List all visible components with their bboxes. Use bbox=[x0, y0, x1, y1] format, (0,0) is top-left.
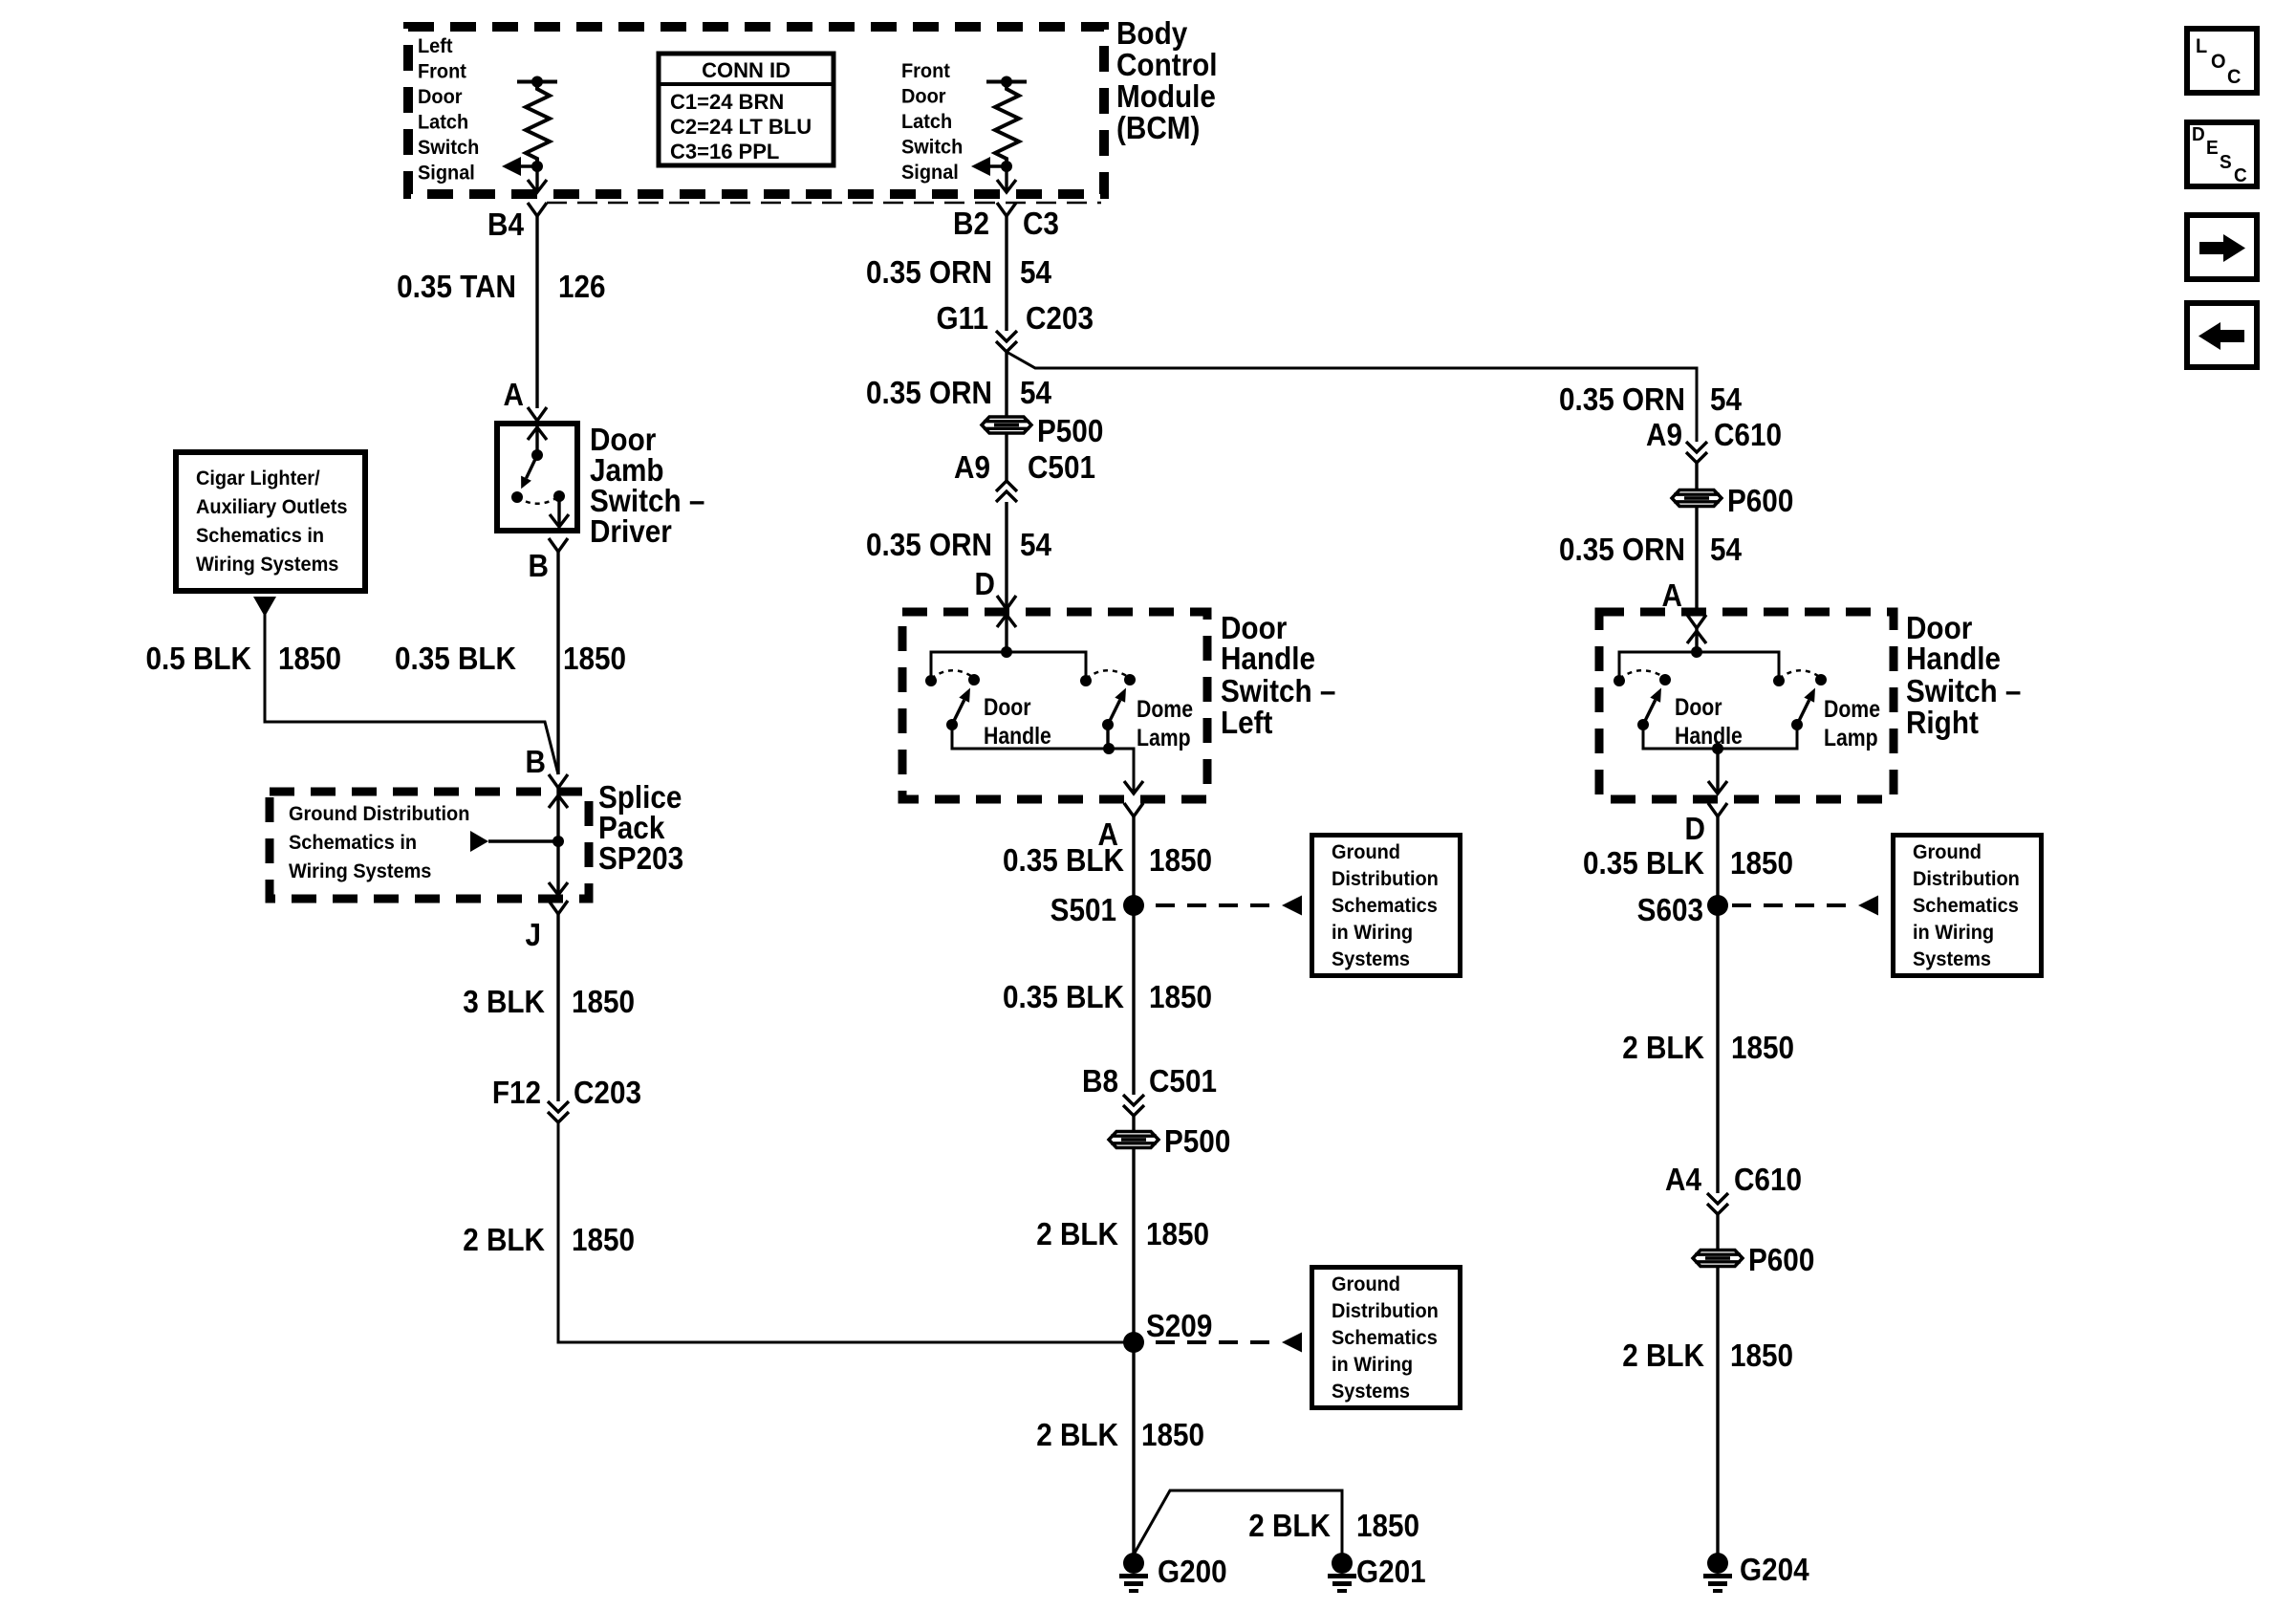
svg-text:0.35 ORN: 0.35 ORN bbox=[866, 376, 992, 411]
svg-text:Lamp: Lamp bbox=[1824, 724, 1878, 751]
svg-text:P600: P600 bbox=[1748, 1243, 1814, 1278]
connector Y at splice pack pin J bbox=[549, 901, 568, 914]
door handle switch - left internals bbox=[925, 609, 1143, 794]
door jamb switch - driver label bbox=[590, 423, 704, 550]
svg-text:S501: S501 bbox=[1051, 893, 1116, 928]
svg-text:Switch –: Switch – bbox=[1906, 674, 2021, 709]
door jamb switch internals bbox=[511, 427, 569, 527]
svg-text:0.5 BLK: 0.5 BLK bbox=[145, 642, 251, 677]
svg-text:Signal: Signal bbox=[418, 162, 475, 185]
wire: C203 branch to right door circuit bbox=[1007, 352, 1697, 442]
dome lamp contact label bbox=[1137, 695, 1193, 751]
svg-text:Schematics: Schematics bbox=[1913, 895, 2019, 918]
svg-text:Ground: Ground bbox=[1913, 841, 1982, 864]
svg-text:B: B bbox=[526, 745, 546, 780]
door handle switch - left label bbox=[1221, 611, 1335, 741]
inline connector A9 C610 bbox=[1686, 442, 1707, 452]
svg-text:CONN ID: CONN ID bbox=[702, 58, 791, 82]
splice S501 bbox=[1123, 895, 1144, 916]
svg-text:1850: 1850 bbox=[563, 642, 626, 677]
svg-text:Switch: Switch bbox=[901, 136, 963, 159]
LOC legend box bbox=[2187, 29, 2257, 93]
svg-text:54: 54 bbox=[1020, 376, 1052, 411]
svg-text:Front: Front bbox=[418, 60, 466, 83]
inline connector B8 C501 bbox=[1123, 1095, 1144, 1105]
svg-text:3 BLK: 3 BLK bbox=[463, 985, 545, 1020]
svg-text:L: L bbox=[2196, 35, 2207, 58]
wire: C610 to P600 bbox=[1695, 463, 1698, 490]
dashed reference arrow from S603 bbox=[1827, 903, 1846, 907]
resistor: front door latch switch (in BCM) bbox=[986, 76, 1027, 167]
svg-text:1850: 1850 bbox=[1149, 980, 1212, 1015]
svg-text:G201: G201 bbox=[1356, 1555, 1426, 1590]
BCM connector face thin dashed line bbox=[547, 202, 1101, 205]
splice pack inner text bbox=[289, 803, 469, 883]
svg-text:Schematics in: Schematics in bbox=[196, 525, 324, 548]
ground G201 bbox=[1332, 1553, 1353, 1574]
svg-text:2 BLK: 2 BLK bbox=[1036, 1217, 1118, 1252]
wire: C203 down to P500 (0.35 ORN 54) bbox=[1005, 352, 1007, 416]
svg-text:B4: B4 bbox=[487, 207, 524, 243]
svg-text:54: 54 bbox=[1710, 382, 1743, 418]
svg-text:S: S bbox=[2220, 152, 2232, 174]
svg-text:B2: B2 bbox=[953, 207, 989, 242]
svg-text:54: 54 bbox=[1710, 533, 1743, 568]
svg-text:in Wiring: in Wiring bbox=[1332, 922, 1413, 945]
svg-text:B8: B8 bbox=[1082, 1064, 1118, 1099]
wire: C610 to P600 bbox=[1716, 1214, 1719, 1250]
svg-text:1850: 1850 bbox=[572, 1223, 635, 1258]
door handle switch - right internals bbox=[1614, 628, 1827, 794]
svg-text:C3: C3 bbox=[1023, 207, 1059, 242]
wire: S603 to C610 (2 BLK 1850) bbox=[1716, 905, 1719, 1193]
ground distribution reference box (S603) bbox=[1894, 836, 2042, 976]
svg-text:E: E bbox=[2206, 138, 2219, 160]
signal arrow (right resistor) bbox=[971, 157, 1007, 176]
svg-text:P500: P500 bbox=[1164, 1124, 1230, 1160]
ground G200 bbox=[1123, 1553, 1144, 1574]
svg-text:2 BLK: 2 BLK bbox=[1622, 1338, 1704, 1374]
svg-text:D: D bbox=[2192, 124, 2205, 146]
svg-text:0.35 ORN: 0.35 ORN bbox=[1559, 533, 1685, 568]
inline connector F12 C203 bbox=[548, 1101, 569, 1112]
svg-text:1850: 1850 bbox=[1731, 1031, 1794, 1066]
svg-text:C501: C501 bbox=[1149, 1064, 1217, 1099]
connector Y at door handle switch right pin A bbox=[1687, 615, 1706, 628]
svg-text:0.35 BLK: 0.35 BLK bbox=[395, 642, 516, 677]
connector Y at BCM pin B4 bbox=[528, 203, 547, 216]
svg-text:Distribution: Distribution bbox=[1913, 868, 2020, 891]
svg-text:1850: 1850 bbox=[1141, 1418, 1204, 1453]
Body Control Module (BCM) dashed box bbox=[408, 27, 1104, 194]
svg-text:Control: Control bbox=[1116, 48, 1218, 83]
svg-text:Driver: Driver bbox=[590, 514, 672, 550]
svg-text:C3=16 PPL: C3=16 PPL bbox=[670, 140, 779, 163]
wire: C501 to P500 bbox=[1132, 1116, 1135, 1131]
svg-text:0.35 BLK: 0.35 BLK bbox=[1003, 980, 1124, 1015]
svg-text:Handle: Handle bbox=[1906, 642, 2001, 677]
svg-text:C: C bbox=[2227, 66, 2242, 89]
svg-text:SP203: SP203 bbox=[598, 841, 683, 877]
pass-through connector P600 (lower) bbox=[1693, 1251, 1743, 1267]
svg-text:D: D bbox=[975, 567, 995, 602]
svg-text:Cigar Lighter/: Cigar Lighter/ bbox=[196, 468, 320, 490]
svg-text:1850: 1850 bbox=[1356, 1509, 1419, 1544]
svg-text:Wiring Systems: Wiring Systems bbox=[289, 860, 431, 883]
door handle switch - left dashed box bbox=[902, 612, 1207, 799]
wire: splice J down to C203 (3 BLK 1850) bbox=[556, 914, 559, 1101]
wire: C501 to door handle switch left pin D (0.35 ORN 54) bbox=[1005, 502, 1007, 612]
svg-text:A9: A9 bbox=[954, 450, 990, 486]
wire: pin D down to S603 (0.35 BLK 1850) bbox=[1716, 816, 1719, 905]
svg-text:Switch: Switch bbox=[418, 137, 479, 160]
svg-text:Ground: Ground bbox=[1332, 1273, 1400, 1296]
wire: P500 to S209 (2 BLK 1850) bbox=[1132, 1148, 1135, 1342]
dome lamp contact label (right) bbox=[1824, 695, 1880, 751]
wire: B4 to door jamb switch pin A (0.35 TAN 126) bbox=[535, 216, 538, 408]
connector Y at door handle switch right pin D bbox=[1708, 803, 1727, 816]
svg-text:C610: C610 bbox=[1734, 1163, 1802, 1198]
svg-text:Left: Left bbox=[418, 35, 453, 58]
svg-text:54: 54 bbox=[1020, 528, 1052, 563]
wire: P600 to ground G204 (2 BLK 1850) bbox=[1716, 1267, 1719, 1558]
signal arrow (left resistor) bbox=[502, 157, 537, 176]
svg-text:Door: Door bbox=[984, 693, 1031, 720]
svg-text:Door: Door bbox=[1675, 693, 1722, 720]
wire: door jamb B down to splice pack (0.35 BLK 1850) bbox=[556, 552, 559, 774]
svg-text:Left: Left bbox=[1221, 706, 1273, 741]
svg-text:Module: Module bbox=[1116, 79, 1216, 115]
left front door latch switch signal label bbox=[418, 35, 479, 185]
wire: left resistor to BCM pin B4 bbox=[535, 166, 538, 192]
wire: cigar lighter 0.5 BLK 1850 to splice bbox=[265, 612, 558, 774]
splice S209 bbox=[1123, 1332, 1144, 1353]
svg-text:Schematics: Schematics bbox=[1332, 1327, 1438, 1350]
svg-text:Systems: Systems bbox=[1913, 948, 1991, 971]
svg-text:Door: Door bbox=[418, 86, 463, 109]
svg-text:(BCM): (BCM) bbox=[1116, 111, 1200, 146]
svg-text:C501: C501 bbox=[1028, 450, 1095, 486]
svg-text:1850: 1850 bbox=[278, 642, 341, 677]
svg-text:D: D bbox=[1685, 812, 1705, 847]
connector Y at door handle switch left pin A bbox=[1124, 803, 1143, 816]
svg-text:F12: F12 bbox=[492, 1076, 541, 1111]
svg-text:Signal: Signal bbox=[901, 162, 959, 185]
svg-text:Ground Distribution: Ground Distribution bbox=[289, 803, 469, 826]
svg-text:0.35 ORN: 0.35 ORN bbox=[866, 528, 992, 563]
wire: C203 down and right to S209 (2 BLK 1850) bbox=[558, 1122, 1134, 1342]
svg-text:C: C bbox=[2234, 165, 2247, 187]
svg-text:Dome: Dome bbox=[1824, 695, 1880, 722]
svg-text:Auxiliary Outlets: Auxiliary Outlets bbox=[196, 496, 347, 519]
svg-text:B: B bbox=[529, 549, 549, 584]
svg-text:1850: 1850 bbox=[1149, 843, 1212, 879]
splice pack SP203 dashed box bbox=[270, 792, 589, 899]
svg-text:C1=24 BRN: C1=24 BRN bbox=[670, 90, 784, 114]
splice pack internals bbox=[470, 788, 568, 895]
svg-text:A9: A9 bbox=[1646, 418, 1682, 453]
inline connector A4 C610 bbox=[1707, 1193, 1728, 1204]
svg-text:Dome: Dome bbox=[1137, 695, 1193, 722]
door jamb switch - driver box bbox=[497, 424, 577, 531]
dashed reference arrow from S209 bbox=[1250, 1340, 1269, 1344]
svg-text:0.35 TAN: 0.35 TAN bbox=[397, 270, 516, 305]
pass-through connector P500 (lower) bbox=[1109, 1132, 1159, 1148]
svg-text:0.35 ORN: 0.35 ORN bbox=[1559, 382, 1685, 418]
wire: branch to ground G201 (2 BLK 1850) bbox=[1134, 1490, 1342, 1556]
svg-text:Systems: Systems bbox=[1332, 948, 1410, 971]
arrow from cigar lighter box bbox=[253, 597, 276, 617]
svg-text:54: 54 bbox=[1020, 255, 1052, 291]
svg-text:0.35 BLK: 0.35 BLK bbox=[1583, 846, 1704, 881]
svg-text:2 BLK: 2 BLK bbox=[1622, 1031, 1704, 1066]
svg-text:A4: A4 bbox=[1665, 1163, 1701, 1198]
ground distribution reference box (S209) bbox=[1312, 1268, 1461, 1408]
connector Y at BCM pin B2 bbox=[997, 203, 1016, 216]
cigar lighter / auxiliary outlets reference box bbox=[176, 452, 365, 591]
door handle contact label bbox=[984, 693, 1051, 749]
svg-text:Lamp: Lamp bbox=[1137, 724, 1191, 751]
svg-text:G11: G11 bbox=[937, 301, 988, 337]
svg-text:Schematics in: Schematics in bbox=[289, 832, 417, 855]
inline connector A9 C501 bbox=[996, 491, 1017, 502]
wire: P500 to C501 bbox=[1005, 434, 1007, 481]
CONN ID table bbox=[659, 54, 834, 165]
svg-text:J: J bbox=[525, 918, 541, 953]
door handle switch - right dashed box bbox=[1599, 612, 1894, 799]
svg-text:O: O bbox=[2211, 51, 2226, 74]
connector Y at door jamb switch pin A bbox=[528, 407, 547, 421]
connector Y at door handle switch left pin D bbox=[997, 596, 1016, 609]
svg-text:Schematics: Schematics bbox=[1332, 895, 1438, 918]
svg-text:Ground: Ground bbox=[1332, 841, 1400, 864]
inline connector G11 C203 bbox=[996, 331, 1017, 341]
svg-text:Handle: Handle bbox=[984, 722, 1051, 749]
svg-text:1850: 1850 bbox=[572, 985, 635, 1020]
svg-text:G200: G200 bbox=[1158, 1555, 1227, 1590]
svg-text:Systems: Systems bbox=[1332, 1381, 1410, 1403]
resistor: left front door latch switch (in BCM) bbox=[517, 76, 557, 167]
wire: right resistor to BCM pin B2 bbox=[1005, 166, 1007, 192]
pass-through connector P500 bbox=[982, 417, 1031, 433]
svg-text:Latch: Latch bbox=[901, 111, 952, 134]
DESC legend box bbox=[2187, 122, 2257, 186]
wire: P600 to door handle switch right pin A (0.35 ORN 54) bbox=[1695, 507, 1698, 612]
BCM title text bbox=[1116, 16, 1218, 146]
svg-text:in Wiring: in Wiring bbox=[1332, 1354, 1413, 1377]
svg-text:C203: C203 bbox=[574, 1076, 641, 1111]
svg-text:Body: Body bbox=[1116, 16, 1188, 52]
svg-text:Front: Front bbox=[901, 60, 950, 83]
svg-text:Wiring Systems: Wiring Systems bbox=[196, 554, 338, 577]
svg-text:Right: Right bbox=[1906, 706, 1979, 741]
svg-text:0.35 ORN: 0.35 ORN bbox=[866, 255, 992, 291]
left-arrow legend box bbox=[2187, 303, 2257, 367]
svg-text:C203: C203 bbox=[1026, 301, 1094, 337]
svg-text:P600: P600 bbox=[1727, 484, 1793, 519]
pass-through connector P600 bbox=[1672, 490, 1722, 507]
svg-text:0.35 BLK: 0.35 BLK bbox=[1003, 843, 1124, 879]
svg-text:C2=24 LT BLU: C2=24 LT BLU bbox=[670, 115, 812, 139]
splice S603 bbox=[1707, 895, 1728, 916]
wire: B2 to C203 (0.35 ORN 54) bbox=[1005, 216, 1007, 331]
svg-text:A: A bbox=[504, 378, 524, 413]
door handle switch - right label bbox=[1906, 611, 2021, 741]
svg-text:Switch –: Switch – bbox=[1221, 674, 1335, 709]
connector Y at splice pack pin B bbox=[549, 774, 568, 788]
svg-text:in Wiring: in Wiring bbox=[1913, 922, 1994, 945]
door handle contact label (right) bbox=[1675, 693, 1743, 749]
svg-text:1850: 1850 bbox=[1730, 846, 1793, 881]
svg-text:1850: 1850 bbox=[1730, 1338, 1793, 1374]
svg-text:126: 126 bbox=[558, 270, 606, 305]
svg-text:S209: S209 bbox=[1146, 1309, 1212, 1344]
svg-text:Door: Door bbox=[901, 85, 946, 108]
splice pack SP203 label bbox=[598, 780, 683, 877]
svg-text:G204: G204 bbox=[1740, 1553, 1809, 1588]
svg-text:Distribution: Distribution bbox=[1332, 868, 1439, 891]
svg-text:Handle: Handle bbox=[1675, 722, 1743, 749]
svg-text:S603: S603 bbox=[1637, 893, 1703, 928]
front door latch switch signal label bbox=[901, 60, 963, 185]
svg-text:Handle: Handle bbox=[1221, 642, 1315, 677]
wire: S209 to ground G200 (2 BLK 1850) bbox=[1132, 1342, 1135, 1558]
svg-text:P500: P500 bbox=[1037, 414, 1103, 449]
svg-text:Distribution: Distribution bbox=[1332, 1300, 1439, 1323]
wire: pin A down to S501 (0.35 BLK 1850) bbox=[1132, 816, 1135, 905]
dashed reference arrow from S501 bbox=[1250, 903, 1269, 907]
svg-text:2 BLK: 2 BLK bbox=[463, 1223, 545, 1258]
node: right resistor signal junction bbox=[1001, 161, 1012, 172]
ground distribution reference box (S501) bbox=[1312, 836, 1461, 976]
svg-text:2 BLK: 2 BLK bbox=[1036, 1418, 1118, 1453]
right-arrow legend box bbox=[2187, 215, 2257, 279]
node: left resistor signal junction bbox=[531, 161, 543, 172]
svg-text:Latch: Latch bbox=[418, 111, 468, 134]
connector Y at door jamb switch pin B bbox=[549, 538, 568, 552]
ground G204 bbox=[1707, 1553, 1728, 1574]
svg-text:C610: C610 bbox=[1714, 418, 1782, 453]
wire: S501 to C501 (0.35 BLK 1850) bbox=[1132, 905, 1135, 1095]
svg-text:2 BLK: 2 BLK bbox=[1248, 1509, 1331, 1544]
svg-text:1850: 1850 bbox=[1146, 1217, 1209, 1252]
